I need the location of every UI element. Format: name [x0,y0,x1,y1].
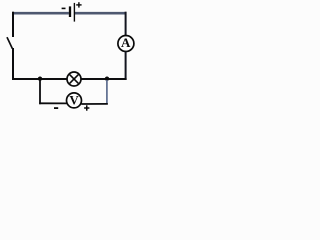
wire: voltmeter row right horizontal [81,103,108,105]
wire: left vertical upper (corner to switch) [12,12,14,37]
wire: left vertical lower (switch to bottom corner) [12,48,14,80]
voltmeter label plus [84,105,89,110]
background [0,0,141,116]
wire: bottom horizontal right (lamp to corner) [81,78,126,80]
wire: top-left horizontal (corner to battery negative plate) [13,12,69,15]
wire: top-right horizontal (battery positive plate to corner) [75,12,127,15]
voltmeter label minus [54,107,58,109]
battery B1: positive plate (tall thin bar) [73,3,75,22]
battery B1: negative plate (short thick bar) [69,6,71,17]
switch S1 blade (open) [7,37,12,49]
ammeter U1 circle [118,36,134,52]
wire: right vertical lower (ammeter to bottom corner) [125,51,127,80]
lamp L1 cross X [70,75,79,84]
voltmeter U2 circle [67,93,82,108]
wire: voltmeter row left horizontal [39,102,67,104]
wire: voltmeter branch left vertical [39,80,41,104]
wire: bottom horizontal left (corner to lamp) [12,78,67,80]
lamp L1 circle [67,72,81,86]
junction node left (dot) [38,77,42,81]
battery label plus [76,2,81,7]
svg-text:V: V [69,92,79,107]
wire: voltmeter branch right vertical (blue) [106,80,108,104]
wire: right vertical upper (corner to ammeter) [125,12,127,36]
battery label minus [62,7,66,9]
junction node right (dot) [105,77,109,81]
svg-text:A: A [121,35,131,50]
